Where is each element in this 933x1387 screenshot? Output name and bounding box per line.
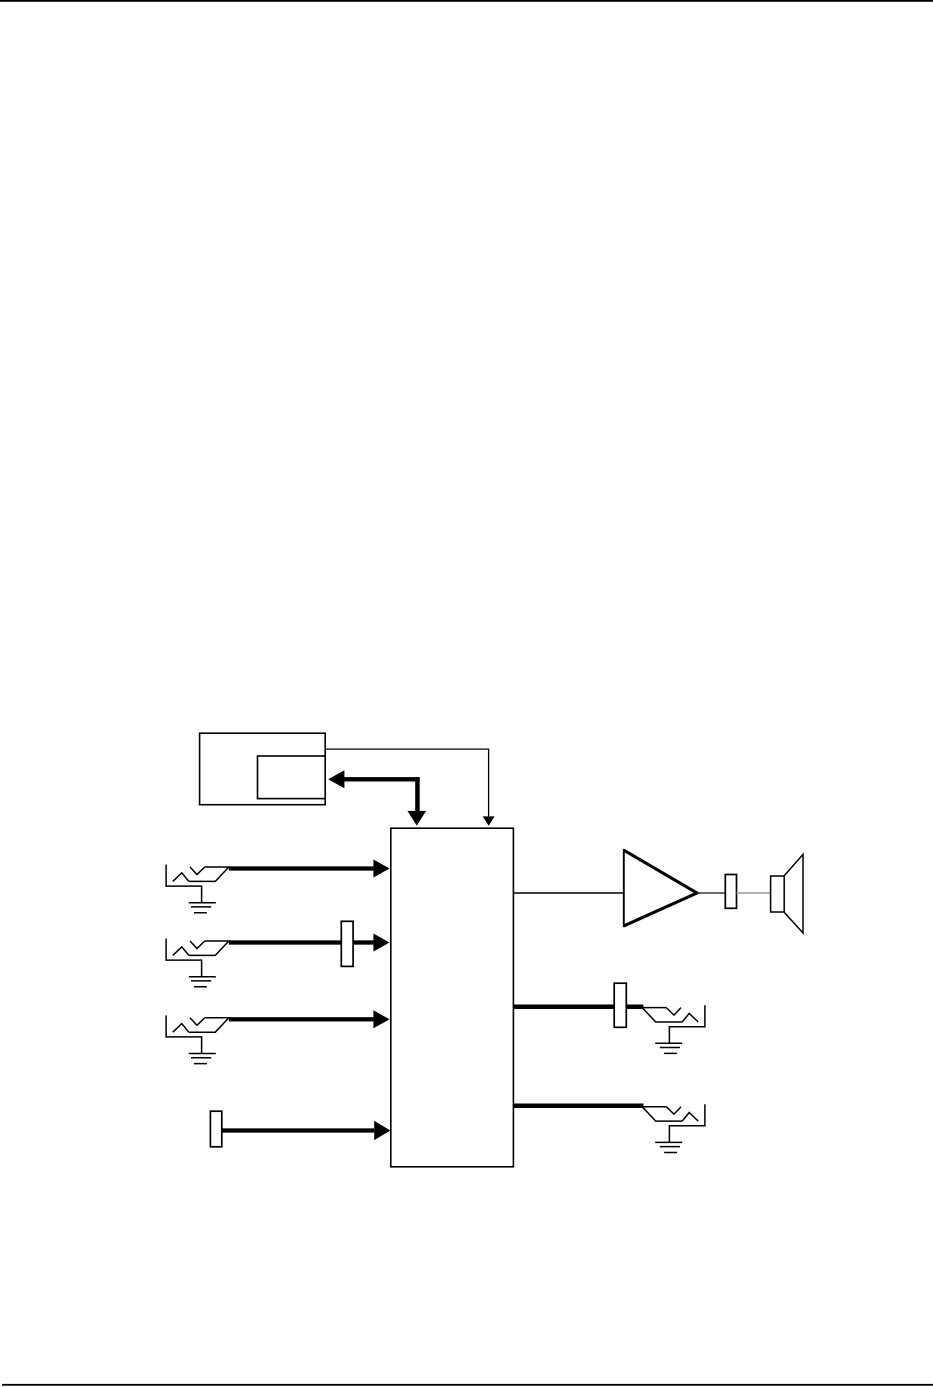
- signal arrow: MIC1 to controller: [222, 1121, 391, 1140]
- signal arrow: J1 to controller: [229, 860, 390, 878]
- capacitor C3 (inline on J4 path): [614, 983, 626, 1027]
- ground (J4): [655, 1027, 682, 1054]
- wire: drive output to controller (thin, with arrowhead): [325, 749, 494, 826]
- bus arrow: controller to drive (thick bent double segment): [328, 770, 426, 825]
- signal arrow: J3 to controller: [229, 1010, 390, 1028]
- block: CD-ROM drive (outer box): [200, 733, 326, 805]
- ground (J1): [189, 886, 216, 913]
- amplifier A1: [624, 849, 697, 927]
- output line: controller to J4: [513, 1004, 643, 1009]
- ground (J5): [655, 1126, 682, 1153]
- block: audio controller U1: [391, 828, 514, 1167]
- ground (J3): [189, 1037, 216, 1064]
- speaker SP1: [771, 854, 803, 933]
- microphone MIC1: [210, 1111, 221, 1147]
- capacitor C2: [725, 875, 736, 909]
- capacitor C1 (inline on J2 path): [341, 921, 353, 966]
- jack J5 (headphone out): [642, 1104, 705, 1126]
- ground (J2): [189, 960, 216, 987]
- wire: controller to amplifier: [513, 892, 623, 894]
- wire: C2 to speaker: [737, 892, 771, 894]
- jack J1 (line in): [166, 865, 229, 887]
- wire: amplifier to C2: [697, 892, 725, 894]
- jack J3 (line in 2): [166, 1015, 229, 1037]
- output line: controller to J5: [513, 1104, 643, 1109]
- jack J2 (aux in): [166, 939, 229, 961]
- signal arrow: J2 to controller: [229, 934, 390, 952]
- block: drive audio sub-module (inner box): [258, 756, 326, 799]
- jack J4 (line out): [642, 1005, 705, 1026]
